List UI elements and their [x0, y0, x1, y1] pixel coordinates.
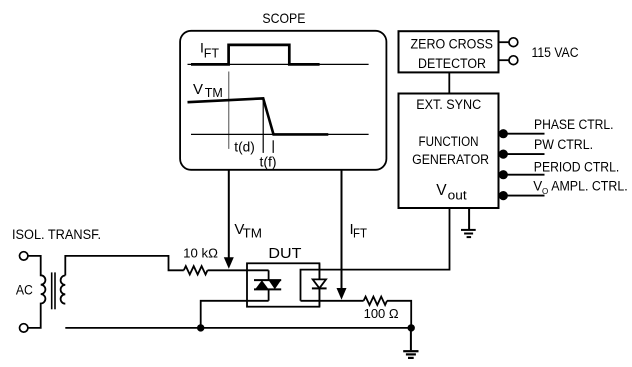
svg-text:TM: TM	[243, 227, 263, 241]
svg-text:PHASE CTRL.: PHASE CTRL.	[534, 117, 614, 132]
115 VAC terminal bottom	[499, 59, 510, 61]
scope box	[180, 31, 386, 170]
AC input terminal top	[20, 252, 28, 260]
svg-text:out: out	[448, 187, 467, 202]
label VTM	[234, 221, 262, 241]
wire Vout to DUT diode	[301, 208, 450, 301]
node PW CTRL.	[499, 137, 594, 159]
ground (function generator)	[461, 208, 476, 237]
svg-text:10 kΩ: 10 kΩ	[183, 246, 218, 261]
transformer T1 secondary winding	[61, 276, 66, 304]
wire ZCD to function generator	[448, 72, 450, 93]
IFT waveform axis	[188, 63, 369, 65]
svg-text:V: V	[533, 178, 542, 193]
diode (DUT input LED)	[312, 263, 327, 306]
wire R2 to ground node	[387, 301, 411, 328]
VTM waveform trace	[188, 98, 329, 134]
transformer T1 core	[51, 272, 53, 309]
VTM waveform axis	[191, 133, 369, 135]
svg-text:V: V	[193, 81, 203, 98]
svg-text:DUT: DUT	[268, 246, 301, 262]
junction ground node	[408, 324, 415, 331]
svg-text:EXT. SYNC: EXT. SYNC	[416, 97, 481, 112]
115 VAC terminal top	[499, 41, 510, 43]
svg-text:FT: FT	[204, 46, 220, 60]
ground (main)	[403, 328, 418, 358]
svg-text:PERIOD CTRL.: PERIOD CTRL.	[534, 160, 620, 175]
label Vout	[436, 182, 467, 203]
svg-text:GENERATOR: GENERATOR	[412, 152, 489, 167]
t(f) tick mark	[272, 140, 274, 153]
node Vo AMPL. CTRL.	[499, 178, 628, 200]
IFT probe arrow	[341, 170, 343, 290]
wire DUT triac bottom to left rail	[201, 301, 269, 328]
t(d) reference line (gray)	[228, 72, 230, 149]
AC input terminal bottom	[20, 324, 28, 332]
svg-text:100 Ω: 100 Ω	[364, 306, 399, 321]
function generator U2	[399, 94, 499, 209]
resistor R1	[184, 266, 208, 274]
bottom rail wire	[65, 327, 411, 329]
svg-text:FUNCTION: FUNCTION	[419, 134, 479, 149]
label IFT	[350, 221, 368, 241]
label IFT (scope trace 1)	[200, 40, 219, 61]
svg-text:ISOL. TRANSF.: ISOL. TRANSF.	[12, 227, 101, 242]
junction left rail	[197, 324, 204, 331]
wire secondary top to R1	[65, 256, 184, 276]
node PHASE CTRL.	[499, 117, 614, 138]
DUT box	[247, 263, 319, 306]
svg-text:AMPL. CTRL.: AMPL. CTRL.	[551, 178, 628, 193]
svg-text:t(d): t(d)	[234, 138, 255, 154]
transformer T1 primary winding	[28, 256, 45, 328]
svg-text:DETECTOR: DETECTOR	[418, 56, 486, 71]
resistor R2	[364, 297, 387, 305]
svg-text:TM: TM	[205, 86, 223, 100]
IFT waveform trace (pulse)	[191, 45, 320, 65]
svg-text:O: O	[542, 187, 548, 196]
wire R1 to DUT triac	[208, 269, 269, 271]
svg-text:115 VAC: 115 VAC	[532, 45, 579, 60]
zero cross detector U1	[399, 31, 499, 72]
label VTM (scope trace 2)	[193, 81, 223, 100]
VTM probe arrow	[228, 170, 230, 259]
svg-text:V: V	[436, 182, 447, 199]
svg-text:t(f): t(f)	[260, 153, 277, 169]
t(d) drop line	[262, 98, 264, 152]
svg-text:PW CTRL.: PW CTRL.	[534, 137, 593, 152]
node PERIOD CTRL.	[499, 160, 620, 180]
svg-text:FT: FT	[353, 227, 367, 241]
svg-text:AC: AC	[16, 282, 33, 297]
svg-text:SCOPE: SCOPE	[262, 10, 305, 26]
svg-text:ZERO CROSS: ZERO CROSS	[411, 37, 494, 52]
wire DUT to R2	[301, 300, 364, 302]
triac (DUT output side)	[254, 270, 281, 301]
